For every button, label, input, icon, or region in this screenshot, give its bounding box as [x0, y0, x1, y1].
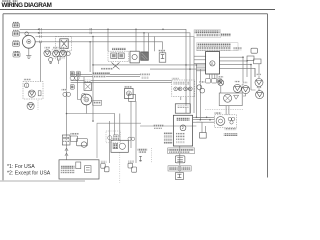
wire W13 left harness row1 — [71, 74, 141, 76]
lighting switch box — [130, 51, 139, 63]
starter switch box — [111, 140, 128, 152]
voltage regulator 11 — [206, 52, 220, 75]
resistor lead — [139, 156, 142, 162]
wire W29 CDI right lead3 — [193, 121, 202, 123]
wire W46 condenser pair — [202, 122, 206, 132]
page bottom shadow — [0, 180, 85, 182]
label frame — [197, 43, 239, 51]
rear brake switch connector — [128, 163, 137, 172]
wire W23 vertical long — [108, 121, 110, 163]
speedometer 16 — [81, 93, 102, 105]
spark plug — [159, 53, 166, 62]
flasher relay 18 — [125, 89, 134, 99]
CDI pin labels — [164, 133, 173, 144]
meter label 2 — [224, 133, 238, 136]
turn signal light rear left — [242, 86, 250, 94]
wire W1 magneto to CDI top — [20, 29, 186, 113]
wire W53 drop to horn switch — [83, 77, 85, 83]
connector icon row left — [13, 23, 21, 57]
diagram frame — [3, 14, 268, 181]
tail brake light dashed box — [172, 80, 195, 97]
ground for magneto — [26, 56, 31, 59]
label cluster top right row2 — [196, 34, 220, 37]
wire W31 regulator feed2 — [194, 59, 206, 61]
wire W41 meter leads — [196, 116, 214, 118]
fuse box lower left — [62, 135, 70, 145]
indicator light symbol — [28, 90, 35, 97]
wire W9 drop — [154, 37, 156, 52]
wire W7 drop to ignition coil — [143, 33, 145, 52]
wire W52 drop to dimmer switch — [78, 77, 81, 100]
svg-text:18: 18 — [127, 92, 131, 96]
wire W15 left harness row3 — [71, 80, 172, 82]
page header small label ELEC — [2, 0, 18, 2]
wire W12 second bus — [150, 68, 206, 70]
connector 1 — [13, 23, 20, 27]
bottom label boxes — [168, 166, 191, 171]
rectifier regulator box above CDI — [175, 104, 190, 113]
page rule — [0, 8, 275, 10]
battery connector pair — [101, 163, 109, 171]
wire W6 drop to ignition box — [135, 29, 137, 51]
pilot light circle — [218, 80, 224, 86]
engine stop switch dashed box — [108, 51, 129, 69]
fuse symbol — [49, 58, 53, 64]
label cluster top right row4 — [197, 47, 242, 50]
turn signal light front right — [255, 79, 263, 87]
resistor boxes right — [247, 56, 261, 64]
wire W35 regulator out1 — [220, 57, 244, 85]
flasher dashed enclosure bottom edge — [205, 109, 243, 111]
wire W44 horn pins — [225, 106, 227, 115]
component reference labels (tiny) — [24, 46, 262, 162]
ignition coil — [141, 52, 149, 60]
spare connector — [57, 56, 60, 60]
svg-text:*1: For USA: *1: For USA — [7, 164, 35, 170]
CDI label row under box — [168, 148, 195, 154]
meter label — [225, 128, 237, 131]
main fuse connector — [175, 156, 185, 163]
diode symbol 1 — [44, 50, 51, 57]
wire W58 resistor to lamp — [258, 64, 260, 79]
wire harness main bus — [20, 29, 259, 172]
wire W10 center vertical — [92, 37, 94, 65]
wire W14 left harness row2 — [71, 76, 141, 78]
meter light dashed box — [215, 115, 237, 128]
diode symbol 2 — [53, 50, 60, 57]
diode symbol 3 — [59, 50, 66, 57]
harness labels mid left — [92, 72, 110, 77]
wire W43 meter lead3 — [196, 121, 214, 123]
wire W36 regulator out2 — [220, 61, 248, 77]
wire W42 meter lead2 — [196, 119, 214, 121]
splice ticks on magneto wires — [40, 28, 92, 43]
wire W39 vertical right of CDI — [195, 65, 197, 117]
wire W38 regulator out4 — [220, 68, 256, 77]
ground joint bottom — [176, 172, 184, 179]
wire W11 main bus to regulator — [93, 64, 206, 66]
connector on main lead — [63, 92, 71, 96]
handlebar switch right box — [97, 123, 141, 158]
wire W33 regulator feed4 — [196, 66, 206, 68]
wire W51 spare lead — [58, 60, 60, 64]
wire W24 vertical pair right of switch cluster — [130, 101, 132, 148]
wire W32 regulator feed3 — [194, 62, 206, 64]
fuse holder box 1 dashed — [23, 82, 43, 100]
wire W4 magneto fourth — [36, 42, 163, 53]
AC magneto 15 — [22, 32, 35, 48]
wire W28 CDI right lead2 — [193, 119, 206, 121]
rectifier diode symbols — [44, 50, 70, 57]
horn switch cluster — [70, 136, 87, 147]
wire W48 battery lead arrows — [65, 148, 68, 156]
wire W37 regulator out3 — [220, 65, 252, 90]
CDI bus labels — [154, 124, 164, 128]
wire W19c speedometer stem — [85, 105, 87, 114]
switch sub box dashed — [106, 131, 121, 143]
wire W19b second drop — [119, 114, 121, 141]
fuse pins — [38, 91, 41, 96]
wire W16 left harness row4 — [71, 82, 172, 84]
wire W3 magneto third — [36, 37, 195, 114]
horn box — [219, 93, 242, 106]
wire W47 CDI bottom chain — [179, 146, 181, 172]
wire W26 CDI bus — [140, 125, 196, 127]
dashed divider — [151, 148, 153, 163]
connector 4 — [13, 53, 20, 57]
connector 2 — [13, 31, 20, 36]
battery terminals — [85, 166, 91, 173]
wire W30 regulator feeds — [194, 55, 206, 57]
connector 3 — [13, 42, 20, 47]
tail light bulbs pair — [197, 85, 205, 93]
svg-text:16: 16 — [85, 98, 89, 102]
diode pair dashed box — [52, 49, 65, 59]
wire W27 CDI right leads — [193, 116, 210, 118]
wire W5 drop to handlebar switch — [107, 29, 109, 51]
svg-text:*2: Except for USA: *2: Except for USA — [7, 171, 51, 177]
indicator light 2 — [27, 102, 34, 109]
svg-text:2: 2 — [182, 126, 184, 130]
wire W18 fuse drop — [40, 42, 42, 82]
wire W50 magneto ground stem — [28, 48, 30, 55]
wire W2 magneto to CDI second — [20, 33, 190, 113]
CDI unit 2 — [173, 115, 192, 146]
dotted lead under starter switch — [119, 153, 121, 184]
main switch dashed box — [56, 36, 72, 51]
wire W25 vertical pair right — [135, 101, 137, 163]
svg-text:11: 11 — [210, 62, 213, 66]
wire W17 main switch drop — [66, 51, 68, 160]
connector top right — [251, 48, 257, 53]
wire W49 CDI pin drops — [210, 75, 218, 79]
wire W57 tail box pins — [181, 97, 186, 104]
wire W34 regulator feed5 — [196, 70, 206, 72]
regulator bottom connector row — [206, 79, 217, 83]
engine stop switch label — [112, 48, 126, 51]
connector stack left harness — [70, 71, 80, 89]
svg-text:WIRING DIAGRAM: WIRING DIAGRAM — [2, 2, 52, 9]
turn signal light front left — [233, 84, 241, 92]
dotted link — [37, 100, 39, 110]
connector small circle — [66, 52, 70, 56]
dimmer switch box — [84, 83, 92, 91]
battery box — [59, 160, 99, 179]
wire W56 right lamp feeds — [251, 68, 259, 90]
stop switch contact — [112, 63, 120, 70]
relay connector — [129, 94, 136, 101]
condenser — [200, 133, 207, 139]
wire W21 vertical to switch cluster — [92, 65, 94, 121]
label cluster top right row1 — [194, 30, 231, 38]
wire W45 horn pin2 — [228, 106, 230, 115]
wire W19 lower bus — [67, 114, 115, 141]
wire W40 vertical right of CDI2 — [199, 69, 201, 120]
wire W54 pilot to horn — [220, 86, 222, 94]
harness label row bottom — [138, 148, 148, 153]
wire W8 drop to CDI lead — [148, 33, 150, 52]
wire W55 lamp link — [237, 85, 245, 96]
label cluster top right row3 — [198, 43, 231, 46]
turn signal light rear right — [256, 91, 264, 99]
regulator output connector row — [218, 79, 222, 83]
wire W10b drop to harness labels — [89, 42, 91, 72]
